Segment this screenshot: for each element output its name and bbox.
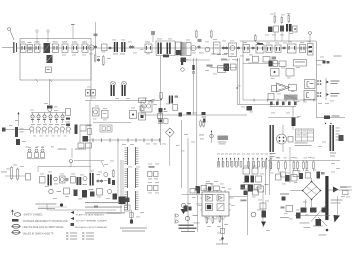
wire y122 bbox=[93, 122, 131, 124]
parts right of IC bbox=[244, 191, 248, 196]
small box right of triangle bbox=[289, 85, 297, 91]
note hatched box bbox=[218, 136, 229, 141]
IC pins top bbox=[204, 190, 206, 192]
audio below row bbox=[49, 189, 53, 193]
big box with two circles bbox=[141, 101, 152, 112]
bottom boxes bbox=[100, 125, 112, 132]
tuner enclosure box outline bbox=[20, 39, 91, 81]
pin dots row2 bbox=[317, 92, 319, 94]
svg-text:VALUES IN OHMS K=1000 TP: VALUES IN OHMS K=1000 TP bbox=[23, 233, 54, 236]
delay line box bbox=[186, 43, 191, 56]
speaker vertical wires bbox=[120, 160, 122, 212]
diagonal jog bbox=[101, 161, 104, 167]
right parts of cap bank bbox=[66, 109, 71, 116]
wire down left bbox=[89, 101, 91, 187]
bridge top lead bbox=[311, 178, 313, 182]
IF transformer T1 bbox=[114, 42, 116, 52]
video rails vertical bbox=[316, 60, 318, 100]
svg-text:LINE VOLTAGE 120V AC ZERO SIG: LINE VOLTAGE 120V AC ZERO SIGNAL bbox=[23, 226, 65, 229]
heater labels bbox=[26, 146, 29, 149]
deflection cluster row2 bbox=[241, 185, 246, 190]
emitter resistor R11 bbox=[94, 55, 96, 61]
left power small parts y172 bbox=[281, 172, 286, 177]
hold control cluster left of IC bbox=[181, 203, 185, 207]
IF chain box 9 bbox=[102, 44, 108, 51]
parts x173 bbox=[173, 105, 178, 111]
trap box right bbox=[231, 64, 237, 70]
audio output transformer bbox=[90, 173, 92, 186]
CRT neck component left bbox=[270, 125, 272, 152]
long vertical x188 bbox=[187, 138, 189, 232]
pilot coils bbox=[28, 149, 31, 152]
filter caps below bridge bbox=[305, 200, 307, 208]
video det transformer coils bbox=[158, 43, 160, 55]
audio input transformer bbox=[48, 175, 50, 186]
CRT socket box 2 bbox=[304, 91, 315, 100]
IC inner block horiz osc dark bbox=[206, 204, 213, 211]
alignment diamond test point bbox=[165, 128, 174, 137]
yoke component right bbox=[330, 125, 332, 151]
video detector diode box bbox=[176, 42, 182, 55]
svg-text:SOCKET TERMINAL NUMBER: SOCKET TERMINAL NUMBER bbox=[76, 220, 107, 223]
yoke labels bbox=[336, 127, 340, 130]
power wire y215 bbox=[295, 215, 330, 217]
bridge left lead bbox=[290, 190, 303, 192]
audio box with circle bbox=[60, 176, 66, 183]
connector comb J2 bbox=[180, 42, 182, 56]
cluster on x160 bbox=[159, 108, 163, 113]
below plug3 part bbox=[131, 210, 133, 224]
video out box row1 b bbox=[279, 61, 286, 67]
IC inner block vert out bbox=[217, 195, 224, 202]
legend row3 symbol bbox=[12, 224, 20, 228]
value labels speckle bbox=[62, 54, 66, 57]
B+ dist wire bbox=[31, 112, 66, 114]
bypass parts bbox=[97, 55, 100, 58]
cap between bbox=[283, 46, 285, 47]
neutralizing cap C11 bbox=[95, 42, 97, 54]
box below x158 bbox=[159, 119, 163, 124]
IC right wire bbox=[229, 196, 248, 198]
left power parts bbox=[280, 194, 289, 195]
heater dropping parts bbox=[15, 127, 18, 137]
sound box 6 bbox=[300, 45, 306, 53]
legend row1 symbol bbox=[12, 211, 14, 216]
IC labels below bbox=[207, 218, 211, 221]
audio dark marks bbox=[77, 177, 79, 185]
IF amp transistor Q3 bbox=[89, 45, 94, 50]
tuner bottom pins bbox=[36, 79, 39, 82]
isolated test symbol bbox=[211, 130, 213, 143]
label circle B bbox=[47, 30, 49, 32]
power bottom text bbox=[300, 222, 310, 225]
right column x263 bbox=[262, 190, 264, 228]
small pots left bbox=[175, 214, 178, 217]
parts x163-168 bbox=[164, 108, 166, 110]
svg-text:SAFETY SYMBOL: SAFETY SYMBOL bbox=[24, 213, 44, 216]
deflection cluster boxes bbox=[243, 168, 250, 174]
parts above IC bbox=[196, 186, 200, 191]
component on wire A bbox=[192, 65, 194, 70]
power marks left bbox=[296, 213, 301, 219]
svg-text:PLATE VOLTAGE READING: PLATE VOLTAGE READING bbox=[76, 213, 104, 216]
audio top wire bbox=[74, 160, 104, 162]
coil labels bbox=[58, 149, 67, 150]
electrolytic cap bank C30 bbox=[32, 113, 34, 116]
sound module enclosure bottom edge bbox=[243, 99, 316, 101]
vertical x337 bbox=[337, 196, 339, 215]
heater wire bbox=[2, 129, 30, 131]
module bottom pin ticks bbox=[253, 99, 255, 102]
IF box 8 bbox=[82, 44, 88, 53]
legend right row1 bbox=[71, 211, 75, 214]
wire main IF chain bbox=[17, 47, 240, 49]
legend right row3 bbox=[71, 223, 75, 226]
sound IF rail bbox=[240, 40, 316, 42]
video out box row1 a bbox=[269, 61, 273, 67]
oscillator transistor Q2 bbox=[47, 55, 53, 63]
audio top test circle bbox=[70, 160, 73, 163]
small box right of CRT base bbox=[288, 137, 293, 143]
rail junction box bbox=[139, 98, 146, 103]
diagonal leads bbox=[311, 204, 327, 222]
CRT socket box 1 bbox=[305, 80, 316, 89]
long vertical wire A bbox=[193, 58, 195, 115]
IF box 7 bbox=[72, 44, 78, 53]
IF box 5 bbox=[53, 44, 59, 53]
deflection pin arrows bbox=[218, 158, 220, 160]
RF transistor Q1 bbox=[44, 43, 51, 53]
cap bank value labels bbox=[31, 123, 35, 126]
AGC keying cluster bbox=[47, 106, 53, 109]
vert part at 255 bbox=[255, 36, 257, 41]
video rail connector down bbox=[316, 100, 318, 118]
antenna terminal J1 bbox=[8, 28, 11, 31]
thermistor bbox=[75, 125, 78, 135]
sound IF box 1 bbox=[243, 45, 250, 53]
audio parts 5 bbox=[104, 173, 108, 177]
sweep IC box U1 bbox=[202, 192, 229, 216]
wire from tuner to T4 bbox=[90, 80, 92, 100]
fuse cluster bbox=[80, 125, 86, 131]
plug area small boxes bbox=[149, 166, 155, 168]
center dist wire y115 bbox=[140, 114, 247, 116]
x188 bottom cluster bbox=[184, 206, 188, 212]
focus arrow 2 bbox=[327, 93, 329, 96]
resistors below IC bbox=[206, 218, 208, 223]
wires down from cluster bbox=[265, 159, 267, 195]
interconnect plug M3 bbox=[127, 191, 129, 210]
B+ rail y100 bbox=[85, 100, 160, 102]
IF transformer T5 bbox=[122, 85, 124, 96]
pin bus y140 bbox=[88, 139, 161, 141]
video det transformer T3 enclosure bbox=[156, 41, 175, 56]
coupling caps C15 bbox=[130, 45, 132, 46]
right of IC vertical bbox=[247, 185, 249, 235]
video amp transistor Q4 bbox=[191, 45, 196, 50]
section divider line bbox=[47, 209, 116, 211]
det out part bbox=[181, 58, 183, 65]
CRT base stem bbox=[282, 125, 284, 135]
sound takeoff box bbox=[145, 44, 152, 53]
sound IF box 3 bbox=[266, 45, 272, 53]
oscillator trimmer box bbox=[46, 67, 52, 73]
audio parts 4 bbox=[97, 173, 101, 176]
adjust text dark bbox=[179, 225, 194, 227]
yoke box bbox=[339, 135, 344, 141]
part x200 y120-142 bbox=[200, 121, 202, 126]
audio input box bbox=[26, 174, 31, 181]
marks under det box bbox=[163, 55, 169, 58]
dark pair top x169 bbox=[169, 96, 171, 104]
speaker dark cluster bbox=[119, 197, 126, 205]
power row2 parts bbox=[276, 174, 282, 180]
transistor at 249 bbox=[247, 106, 253, 111]
parts above bridge bbox=[306, 173, 311, 179]
arrow to tuner bbox=[18, 113, 20, 126]
svg-text:VOLTAGES MEASURED TO CHASSIS G: VOLTAGES MEASURED TO CHASSIS GND bbox=[23, 220, 68, 223]
left edge box b bbox=[268, 94, 274, 100]
sound module enclosure left edge bbox=[242, 41, 244, 100]
antenna input balun dashed shield bbox=[13, 42, 14, 53]
volume takeoff component bbox=[308, 44, 314, 56]
keyer box with circle bbox=[93, 108, 100, 116]
brightness parts bbox=[223, 46, 225, 47]
wire x118 down to audio out bbox=[117, 140, 119, 196]
legend right row2 bbox=[71, 217, 75, 220]
junction cluster x202 bbox=[202, 112, 206, 115]
audio det box bbox=[288, 44, 297, 53]
table notes bbox=[295, 142, 308, 145]
power resistor bank bbox=[270, 161, 272, 163]
label circle A bbox=[36, 30, 38, 32]
audio box 3 bbox=[71, 177, 76, 184]
power labels bbox=[269, 157, 273, 160]
interconnect plug M2 bbox=[127, 168, 129, 188]
legend mini table bbox=[66, 233, 69, 234]
audio bottom text bbox=[36, 204, 57, 205]
heater plug bbox=[2, 128, 6, 132]
small boxes at 86-95 y89 bbox=[86, 90, 91, 97]
dark blob on y113 bbox=[187, 112, 192, 115]
power transformer thick bar bbox=[325, 176, 328, 220]
wire vertical tuner right bbox=[90, 52, 92, 80]
rail tick left bbox=[150, 99, 155, 101]
sound IF box 4 bbox=[275, 45, 281, 53]
power vertical x290 bbox=[289, 147, 291, 183]
box with dot bbox=[130, 111, 137, 119]
focus arrow 1 bbox=[327, 81, 329, 84]
tuner coil L1 bbox=[21, 44, 27, 53]
audio transistor bbox=[83, 177, 87, 181]
pair box y106 bbox=[140, 106, 144, 111]
box 2 bbox=[102, 111, 109, 119]
discriminator down-leads bbox=[274, 32, 276, 41]
IC side pins bbox=[201, 197, 203, 199]
dark comp x293 bbox=[292, 118, 296, 127]
svg-text:INDICATES CIRCUIT BREAKER: INDICATES CIRCUIT BREAKER bbox=[75, 226, 107, 229]
dark comp below bbox=[316, 219, 322, 226]
audio coupling box bbox=[40, 177, 46, 184]
triangle hatch bbox=[279, 84, 284, 86]
trap dark component bbox=[224, 64, 230, 72]
pin into rail bbox=[160, 93, 163, 99]
bridge rectifier CR1 bbox=[303, 182, 321, 200]
sound output boxes below rail bbox=[253, 56, 259, 62]
trap wire y67 bbox=[210, 67, 237, 69]
peaking parts bbox=[198, 39, 202, 42]
power text right bbox=[331, 200, 343, 201]
shielded cable pair bbox=[236, 58, 238, 104]
wire y104 to video bbox=[237, 104, 275, 106]
IF transformer T4 bbox=[111, 85, 113, 96]
AGC wire vertical bbox=[49, 80, 51, 105]
voltage table bbox=[296, 129, 314, 141]
hatched block bbox=[284, 95, 298, 100]
audio parts 2 bbox=[66, 178, 68, 179]
sound IF box 2 bbox=[256, 45, 264, 54]
resistor network bbox=[196, 31, 198, 37]
IC pins bottom bbox=[204, 216, 206, 218]
wire y117 left bbox=[268, 117, 299, 119]
vertical x160 bbox=[160, 56, 162, 146]
flyback arrow dark bbox=[334, 215, 341, 223]
legend row2 symbol bbox=[12, 219, 19, 222]
IF transformer T2 bbox=[121, 42, 123, 52]
tuner coil L3 bbox=[35, 44, 41, 53]
short vertical x181 bbox=[181, 120, 183, 188]
tube heaters bbox=[30, 127, 34, 131]
power rail y160 bbox=[268, 160, 340, 162]
boxes top right of IC bbox=[244, 185, 251, 190]
video out box row2 a bbox=[271, 69, 280, 77]
det test circle bbox=[181, 68, 185, 72]
right edge wire down bbox=[316, 41, 318, 61]
TP marks left bbox=[175, 96, 179, 98]
small parts column x127 bbox=[125, 198, 130, 203]
AGC line part bbox=[95, 22, 97, 42]
interconnect plug M1 bbox=[127, 147, 129, 165]
video out box row2 b bbox=[286, 69, 294, 77]
parts right of Q6 bbox=[238, 46, 240, 47]
below CRT marks bbox=[270, 153, 276, 154]
bottom center text note bbox=[120, 228, 147, 229]
video driver circle Q6 bbox=[229, 43, 237, 57]
parts row y101-107 bbox=[270, 102, 273, 106]
parts at corner bbox=[323, 61, 326, 64]
IC left wire bbox=[198, 205, 203, 207]
audio section box outline bbox=[38, 166, 91, 168]
dark dot box bbox=[139, 113, 146, 120]
sync sep parts y188 bbox=[182, 194, 217, 196]
IF box 6 bbox=[62, 44, 68, 53]
tuner coil L2 bbox=[28, 45, 33, 53]
test point above bbox=[152, 31, 154, 42]
IC bottom vertical bbox=[222, 216, 224, 244]
vertical x293 bbox=[292, 107, 294, 130]
video amp triangle bbox=[277, 83, 290, 92]
legend row4 symbol bbox=[12, 230, 20, 234]
pin dots row1 bbox=[317, 80, 319, 82]
left edge box a bbox=[272, 86, 277, 92]
ratio det cap bbox=[252, 46, 254, 47]
audio right vertical parts bbox=[113, 171, 115, 177]
speaker note rows bbox=[85, 202, 120, 203]
choke L406 bbox=[316, 117, 345, 119]
CRT base circle bbox=[277, 134, 287, 144]
yoke bar top dots bbox=[325, 123, 326, 124]
dark box below comb bbox=[181, 58, 187, 63]
deflection resistor row bbox=[218, 162, 220, 168]
sound trap parts bbox=[207, 65, 213, 67]
IC inner block vert osc bbox=[206, 195, 213, 202]
contrast box bbox=[214, 42, 221, 54]
IC inner block horiz out bbox=[217, 204, 224, 211]
discriminator cluster above bbox=[274, 17, 276, 23]
B+ takeoff arrow bbox=[333, 187, 339, 193]
audio parts 1 bbox=[54, 177, 58, 181]
resistor R12 vertical bbox=[103, 57, 105, 65]
transistor Q5 bbox=[205, 47, 210, 52]
AGC test point bbox=[72, 25, 74, 38]
video out wide box bbox=[294, 60, 307, 67]
volume pot input bbox=[1, 171, 7, 174]
long vertical wire B bbox=[196, 58, 198, 195]
